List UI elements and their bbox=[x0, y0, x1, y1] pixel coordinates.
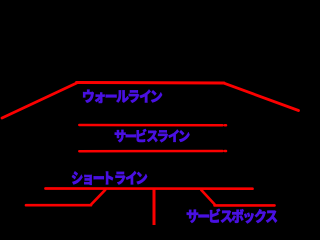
service line lower end dash bbox=[225, 150, 226, 153]
label: short line (ショートライン) bbox=[72, 171, 147, 185]
short line bbox=[46, 187, 253, 190]
wall line horizontal (front wall) bbox=[77, 81, 225, 85]
right service box diagonal bbox=[201, 190, 214, 204]
centre line vertical bbox=[153, 189, 156, 226]
wall line right diagonal bbox=[224, 83, 299, 110]
left service box diagonal bbox=[91, 190, 105, 205]
label: service box (サービスボックス) bbox=[187, 209, 277, 224]
left service box bottom line bbox=[26, 204, 91, 207]
service line lower bbox=[79, 150, 222, 153]
service line upper end dash bbox=[225, 124, 226, 127]
right service box bottom line bbox=[215, 204, 275, 207]
label: wall line (ウォールライン) bbox=[83, 90, 162, 103]
wall line left diagonal bbox=[2, 82, 78, 118]
label: service line (サービスライン) bbox=[115, 129, 190, 142]
service line upper bbox=[79, 124, 222, 127]
